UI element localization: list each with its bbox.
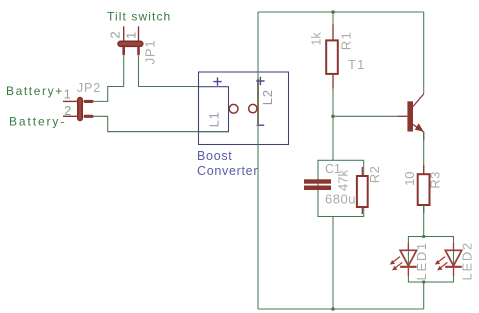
LED1 triangle: [400, 250, 416, 265]
LED1 pin stub top: [407, 243, 409, 251]
wire collector up: [423, 12, 425, 94]
svg-text:2: 2: [64, 103, 71, 118]
wire R1 to C1 R2 box: [332, 74, 334, 160]
base pin stub: [398, 115, 407, 117]
junction dot top rail R1: [331, 10, 335, 14]
svg-text:T1: T1: [348, 57, 366, 72]
LED1 emission arrow 1: [393, 257, 400, 262]
svg-text:1: 1: [124, 32, 139, 39]
wire overlay on L1 box bottom: [108, 131, 229, 133]
svg-text:Battery-: Battery-: [9, 115, 66, 129]
L2 pin circle: [249, 104, 257, 112]
LED2: [435, 243, 462, 276]
collector line: [413, 94, 424, 107]
pin line JP1-1: [138, 26, 140, 48]
C1 top plate: [304, 179, 331, 183]
LED1 pin stub bottom: [407, 268, 409, 276]
svg-text:2: 2: [108, 31, 123, 38]
wire LED box to bottom rail: [423, 282, 425, 309]
LED2 cathode bar: [445, 266, 462, 268]
wire JP2 pin2 to boost converter input minus: [94, 116, 229, 131]
svg-text:L1: L1: [207, 111, 222, 127]
plus mark output: [256, 77, 264, 85]
junction dot LED box top: [422, 235, 425, 238]
LED1 emission arrow 2: [395, 262, 402, 267]
resistor R1: [326, 25, 338, 89]
emitter pin stub down: [423, 132, 425, 141]
JP2 body bar: [78, 98, 82, 121]
connector JP1: [108, 26, 158, 64]
svg-text:10: 10: [402, 171, 417, 185]
C1 R2 parallel box wire: [318, 160, 364, 216]
wire boost output vertical: [257, 12, 259, 309]
svg-text:LED1: LED1: [414, 241, 429, 280]
junction dot bottom rail: [331, 307, 335, 311]
svg-text:JP2: JP2: [77, 81, 101, 95]
R1 pin stub top: [332, 25, 334, 41]
wire base of T1: [333, 115, 399, 117]
wire bottom rail: [258, 308, 424, 310]
base bar: [407, 101, 413, 131]
LED2 pin stub bottom: [453, 268, 455, 276]
JP2 pad stub pin1: [84, 100, 94, 103]
svg-text:Boost: Boost: [197, 149, 232, 163]
R3 pin stub top: [423, 165, 425, 174]
svg-text:1: 1: [64, 87, 71, 102]
svg-text:Converter: Converter: [197, 164, 258, 178]
R3 pin stub bottom: [423, 205, 425, 213]
R1 body: [326, 40, 338, 74]
capacitor C1: [304, 179, 331, 190]
LED1 cathode bar: [400, 266, 417, 268]
LED2 emission arrow 2: [440, 262, 447, 267]
JP2 pad stub pin2: [84, 115, 94, 118]
wire JP2 pin1 to tilt switch pin2: [94, 56, 124, 101]
JP1 body bar: [118, 41, 143, 46]
plus mark input: [213, 77, 221, 85]
svg-text:LED2: LED2: [460, 241, 475, 280]
connector JP2: [63, 81, 101, 120]
svg-text:L2: L2: [260, 89, 275, 105]
R2 pin stub top: [361, 167, 363, 176]
transistor T1: [398, 94, 424, 140]
L2 terminal pin line: [257, 79, 259, 124]
R2 body: [357, 176, 368, 207]
svg-text:Tilt switch: Tilt switch: [107, 10, 171, 24]
LED parallel box wire: [408, 237, 453, 283]
LED2 triangle: [445, 250, 461, 265]
L1 pin circle: [229, 104, 238, 113]
JP1 pad stub pin1: [137, 47, 140, 56]
resistor R3: [418, 165, 430, 213]
junction dot LED box bottom: [422, 280, 425, 283]
R1 pin stub bottom: [332, 74, 334, 89]
pin line JP2-1: [63, 100, 78, 102]
LED1: [390, 243, 417, 276]
boost converter input port box L1: [199, 87, 229, 132]
pin line JP2-2: [63, 115, 78, 117]
LED2 emission arrow 1: [438, 257, 445, 262]
R2 pin stub bottom: [361, 207, 363, 214]
svg-text:R1: R1: [339, 31, 354, 50]
svg-text:Battery+: Battery+: [6, 84, 64, 98]
wire R1 branch upper: [332, 12, 334, 40]
emitter arrowhead: [415, 123, 424, 131]
junction dot base: [331, 115, 335, 119]
minus mark output: [257, 124, 265, 126]
svg-text:R2: R2: [367, 166, 382, 183]
wire R3 to LED box: [423, 205, 425, 237]
wire C1 R2 box to bottom rail: [332, 217, 334, 310]
pin line JP1-2: [123, 26, 125, 48]
wire emitter to R3: [423, 132, 425, 174]
resistor R2: [357, 167, 368, 214]
C1 bottom plate: [304, 186, 331, 191]
emitter line: [413, 125, 424, 133]
svg-text:1k: 1k: [310, 32, 324, 46]
svg-text:47k: 47k: [336, 170, 351, 191]
JP1 pad stub pin2: [122, 47, 125, 56]
svg-text:680u: 680u: [325, 192, 356, 207]
R3 body: [418, 174, 430, 205]
wire top rail: [258, 11, 424, 13]
svg-text:JP1: JP1: [143, 40, 158, 65]
svg-text:R3: R3: [427, 171, 442, 188]
boost converter module outline: [199, 72, 289, 145]
LED2 pin stub top: [453, 243, 455, 251]
wire tilt switch pin1 to boost converter input plus: [139, 56, 199, 87]
